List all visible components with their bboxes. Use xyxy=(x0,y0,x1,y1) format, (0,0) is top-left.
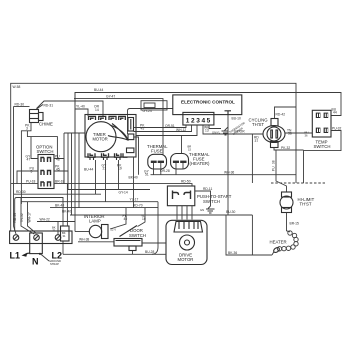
svg-text:GY/OR: GY/OR xyxy=(234,130,245,134)
wire GY-24 xyxy=(128,109,173,135)
svg-text:PU5: PU5 xyxy=(30,167,35,174)
svg-text:BK-40: BK-40 xyxy=(129,176,138,180)
svg-text:(HEATER): (HEATER) xyxy=(190,161,211,166)
hi-limit thermostat xyxy=(282,192,292,197)
wire lamp left xyxy=(75,231,90,233)
wire RD-42 xyxy=(275,107,297,119)
svg-text:BU-28: BU-28 xyxy=(145,250,155,254)
wire y216 xyxy=(70,214,252,216)
svg-text:BU44: BU44 xyxy=(332,108,337,115)
EC pin5 wire xyxy=(209,125,221,129)
svg-text:BU-44: BU-44 xyxy=(84,168,94,172)
wire YL xyxy=(138,208,146,227)
svg-text:BU-30: BU-30 xyxy=(226,210,236,214)
wire TN-52 drop xyxy=(21,198,34,235)
timer motor circle xyxy=(86,122,116,152)
wire option feed xyxy=(27,131,57,159)
wire BR-18 xyxy=(54,184,192,186)
svg-text:RD-11: RD-11 xyxy=(203,187,212,191)
push to start switch xyxy=(167,186,194,206)
wire collector y133 xyxy=(64,132,85,134)
svg-text:YL-40: YL-40 xyxy=(76,105,85,109)
svg-text:RD-31: RD-31 xyxy=(44,104,54,108)
svg-text:W-58: W-58 xyxy=(13,85,21,89)
svg-text:PU48: PU48 xyxy=(55,155,60,162)
ground arrow xyxy=(22,253,28,257)
wire y194.2 xyxy=(14,193,102,195)
timer bottom drop PK-19 xyxy=(118,160,120,190)
outer border xyxy=(11,83,296,231)
wire fuse2 feed xyxy=(181,136,183,154)
timer bottom drop BU-44 xyxy=(95,160,97,194)
svg-text:BU-10: BU-10 xyxy=(232,116,242,120)
svg-text:GN: GN xyxy=(200,208,204,212)
svg-text:OR-51: OR-51 xyxy=(165,124,175,128)
svg-text:MOTOR: MOTOR xyxy=(93,137,108,142)
svg-text:GY21: GY21 xyxy=(102,164,108,171)
wire drop x252 xyxy=(251,215,253,255)
wire GY-47 option left xyxy=(31,137,38,159)
contact row 3 xyxy=(41,182,51,187)
svg-text:MOTOR: MOTOR xyxy=(178,257,194,262)
chime xyxy=(30,105,53,127)
svg-text:BK-36: BK-36 xyxy=(228,251,237,255)
svg-text:RD-70: RD-70 xyxy=(133,204,143,208)
svg-text:LAMP: LAMP xyxy=(89,219,101,224)
wire PU-48 option right xyxy=(54,159,64,184)
EC connector 1 2 3 4 5 xyxy=(183,112,214,125)
wire WH-17 drop xyxy=(28,202,37,234)
EC pin4 wire to cycling xyxy=(203,125,263,134)
wire x79 xyxy=(78,133,80,208)
svg-text:BR-18: BR-18 xyxy=(55,180,65,184)
svg-text:RD-42: RD-42 xyxy=(276,113,286,117)
wire door switch to drive motor xyxy=(142,242,166,244)
svg-text:TH'ST: TH'ST xyxy=(300,202,312,207)
wire x226 to heater xyxy=(226,215,272,255)
wire BU-44 top xyxy=(75,93,341,134)
wire WH-22 xyxy=(37,221,75,223)
wire RD-37 drop xyxy=(251,134,253,183)
wire x71.5 xyxy=(71,133,73,215)
svg-text:PK19: PK19 xyxy=(117,164,122,171)
wire y204 xyxy=(21,201,158,203)
electronic control box xyxy=(173,95,242,115)
EC pin1 wire OR-51 xyxy=(134,125,187,128)
timer right contacts xyxy=(128,118,134,132)
wire RD-30 vertical xyxy=(13,107,15,195)
wire L2 drop xyxy=(57,222,59,235)
terminal block xyxy=(10,231,72,244)
wire x158 drop xyxy=(157,202,159,247)
wire x68 xyxy=(67,133,69,190)
connector on GY-24 wire xyxy=(141,101,167,110)
wire PK-40 xyxy=(110,208,126,229)
svg-text:OR-28: OR-28 xyxy=(160,169,170,173)
ground push-to-start xyxy=(206,206,215,213)
wire PU-32 xyxy=(304,131,342,184)
svg-text:PU-32: PU-32 xyxy=(332,127,342,131)
timer bottom contacts xyxy=(88,153,128,157)
svg-text:OR14: OR14 xyxy=(94,105,100,112)
svg-text:22 V: 22 V xyxy=(111,228,117,232)
timer cam lever xyxy=(108,125,128,140)
EC pin3 wire xyxy=(136,125,197,136)
wire BK-40 drop to block xyxy=(66,184,68,226)
thermistor sensor label xyxy=(228,121,248,137)
wire y189.5 xyxy=(68,189,150,191)
wire PK-45 option right xyxy=(54,171,68,190)
svg-text:RD-50: RD-50 xyxy=(181,180,191,184)
svg-text:SWITCH: SWITCH xyxy=(129,233,146,238)
timer bottom drop GY-21 xyxy=(105,160,107,202)
wire BU-28 to motor xyxy=(63,253,166,255)
wire GY-47 xyxy=(74,99,163,155)
svg-text:RD37: RD37 xyxy=(254,136,259,143)
option switch xyxy=(36,145,54,189)
svg-text:BR15: BR15 xyxy=(188,145,192,152)
wire RD-11 xyxy=(195,191,211,206)
wire BU-18 option bottom row xyxy=(11,183,38,185)
svg-text:GY-14: GY-14 xyxy=(119,190,128,194)
svg-text:STRAP: STRAP xyxy=(50,262,59,266)
svg-text:WH-17: WH-17 xyxy=(28,212,32,222)
node YL-40 xyxy=(75,109,88,116)
wire BR-15 xyxy=(286,213,288,232)
svg-text:PK3: PK3 xyxy=(25,124,30,131)
svg-text:N: N xyxy=(32,257,39,267)
wire WH-36 horizontal xyxy=(151,174,297,176)
wire x75 xyxy=(74,93,76,232)
terminal N xyxy=(34,235,40,241)
svg-text:WH36: WH36 xyxy=(304,131,309,138)
svg-text:WH-36: WH-36 xyxy=(224,171,234,175)
svg-text:L1: L1 xyxy=(10,251,21,261)
timer box xyxy=(85,115,136,158)
wire PU-38 xyxy=(276,150,287,192)
svg-text:PU-18: PU-18 xyxy=(26,180,36,184)
contact row 2 xyxy=(41,171,51,176)
svg-text:GY-47: GY-47 xyxy=(106,95,115,99)
wire PK-3 chime bottom xyxy=(21,123,31,205)
wire RD-35 drop xyxy=(14,194,17,234)
svg-text:BU-44: BU-44 xyxy=(94,88,104,92)
wire x64 xyxy=(63,133,65,184)
svg-text:BK-40: BK-40 xyxy=(55,204,64,208)
temp switch xyxy=(312,110,331,137)
wire RD-70 y207.6 xyxy=(50,207,158,209)
svg-text:ELECTRONIC CONTROL: ELECTRONIC CONTROL xyxy=(181,100,235,105)
dashed cabinet line xyxy=(271,182,325,184)
svg-text:TN-52: TN-52 xyxy=(20,213,24,222)
svg-text:FUSE: FUSE xyxy=(151,149,163,154)
svg-text:BK-40: BK-40 xyxy=(62,210,71,214)
svg-text:RD-30: RD-30 xyxy=(15,103,25,107)
svg-text:12345: 12345 xyxy=(186,117,212,124)
thermal fuse left xyxy=(147,144,189,169)
svg-text:BK31: BK31 xyxy=(52,226,56,233)
terminal L2 xyxy=(55,235,61,241)
terminal L1 xyxy=(13,235,19,241)
svg-text:TN36: TN36 xyxy=(287,129,292,136)
svg-text:SWITCH: SWITCH xyxy=(314,144,331,149)
svg-text:WH-12: WH-12 xyxy=(176,128,186,132)
junction N ground strap xyxy=(39,253,41,255)
svg-text:GY47: GY47 xyxy=(26,155,32,162)
ground EC xyxy=(222,127,229,135)
svg-text:BR-15: BR-15 xyxy=(290,222,300,226)
contact row 1 xyxy=(41,158,51,163)
wire WH-38 xyxy=(78,241,114,243)
wire RD-30 xyxy=(14,106,30,108)
drive motor xyxy=(166,220,207,264)
svg-text:SWITCH: SWITCH xyxy=(37,149,54,154)
svg-text:L2: L2 xyxy=(52,251,63,261)
wire TN-36 right xyxy=(285,132,312,134)
svg-text:RD-30: RD-30 xyxy=(16,190,26,194)
svg-text:GY51: GY51 xyxy=(144,170,150,177)
svg-text:BK31: BK31 xyxy=(62,231,66,238)
EC right terminal xyxy=(225,111,232,115)
wire BU-10 xyxy=(227,115,229,215)
enclosure corner bottom-left xyxy=(15,198,63,232)
wire OR-14 xyxy=(37,101,104,116)
svg-text:SWITCH: SWITCH xyxy=(203,199,220,204)
EC pin2 wire WH-12 xyxy=(134,125,192,132)
wire PK-32 xyxy=(274,148,304,151)
svg-text:HEATER: HEATER xyxy=(270,240,287,245)
svg-text:WH-22: WH-22 xyxy=(40,218,50,222)
svg-text:PK-32: PK-32 xyxy=(281,146,290,150)
svg-text:TH'ST: TH'ST xyxy=(252,122,264,127)
svg-text:PK45: PK45 xyxy=(55,165,60,172)
wires push to motor xyxy=(177,206,192,220)
svg-text:YL-17: YL-17 xyxy=(130,198,139,202)
timer bottom drop BK-40 xyxy=(133,157,135,208)
wire PK-3 option left xyxy=(17,171,38,184)
svg-text:WH-38: WH-38 xyxy=(79,238,89,242)
heater terminal xyxy=(273,247,281,254)
fuse drops xyxy=(154,163,184,175)
svg-text:RD-35: RD-35 xyxy=(13,213,17,223)
timer top contacts xyxy=(89,116,117,120)
svg-text:PU 38: PU 38 xyxy=(272,160,276,171)
svg-text:CHIME: CHIME xyxy=(39,122,53,127)
